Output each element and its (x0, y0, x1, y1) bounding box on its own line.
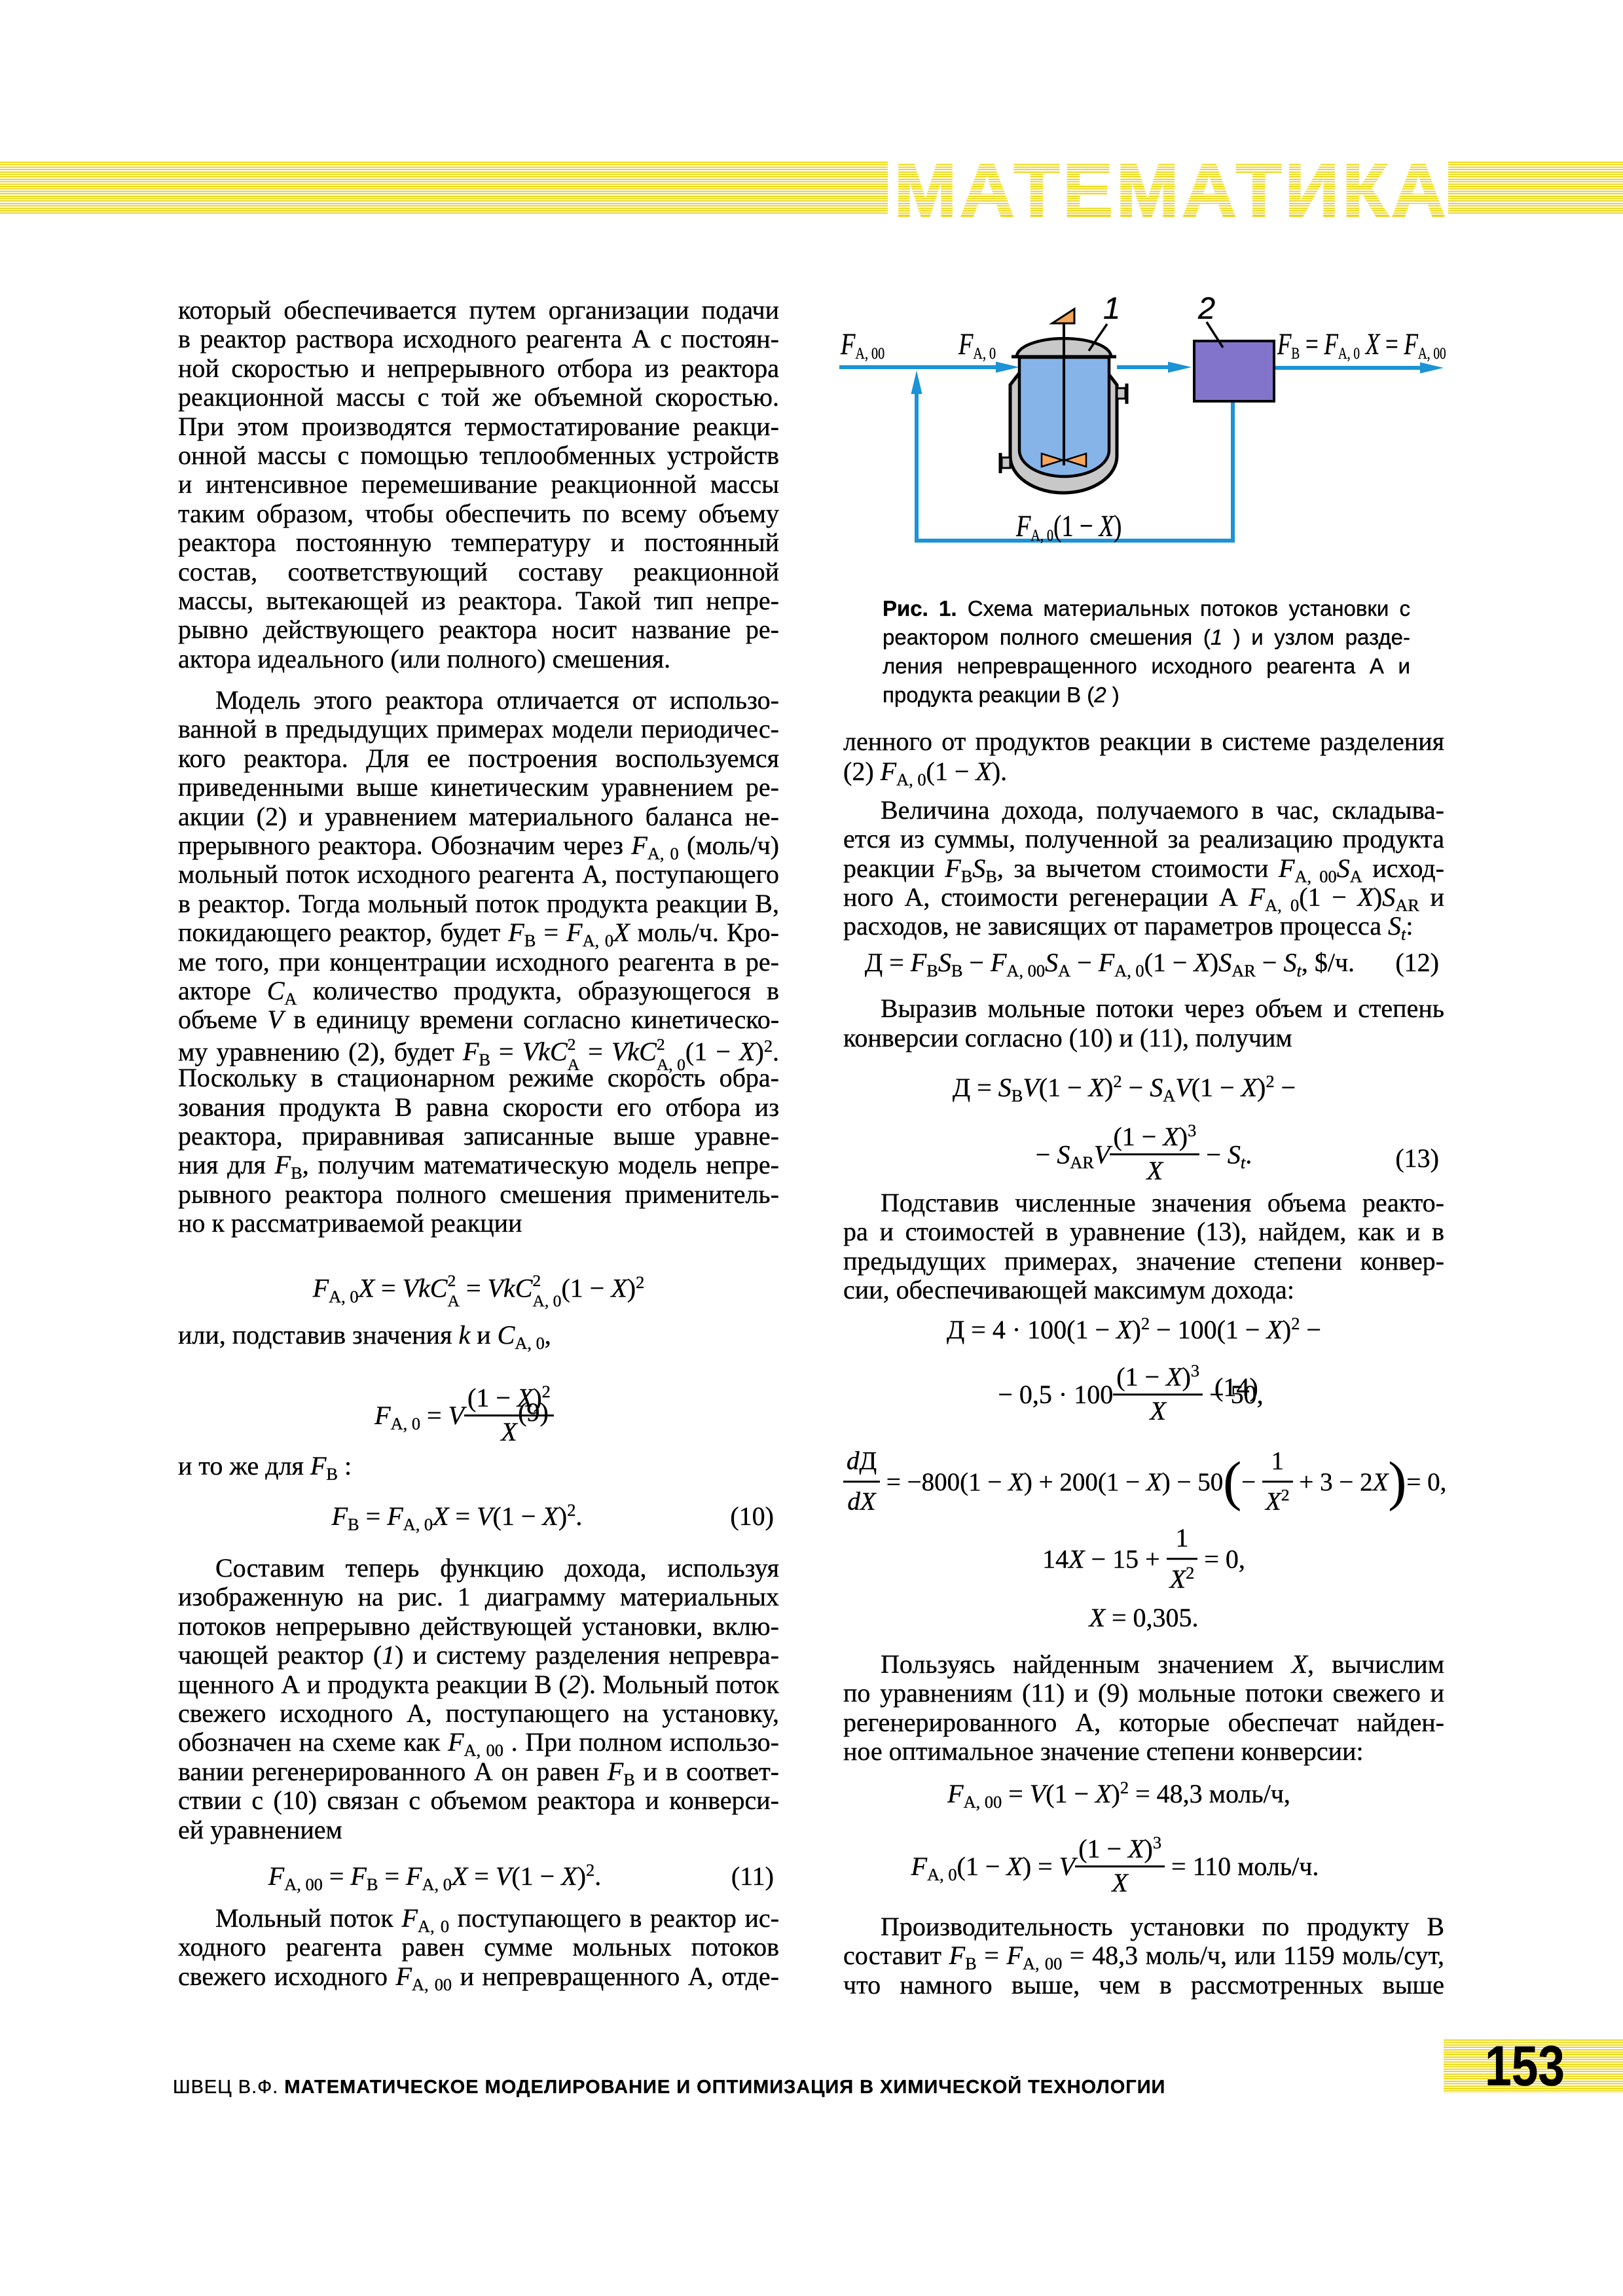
footer running title (173, 2077, 1165, 2098)
header striped band МАТЕМАТИКА (0, 162, 1623, 215)
equation 13 (843, 1073, 1444, 1103)
equation F_A0(1-X) = 110 (843, 1839, 1444, 1900)
equation dД/dX (843, 1448, 1444, 1521)
equation 14 (843, 1315, 1444, 1345)
equation F_A00 = 48,3 (843, 1779, 1444, 1809)
equation 11 (178, 1861, 779, 1892)
reactor side nozzle right (1117, 384, 1127, 404)
wire outlet F_B (1274, 363, 1444, 374)
equation 14X-15 (843, 1524, 1444, 1600)
label F_B = F_A,0 X = F_A,00 (1277, 329, 1446, 360)
agitator shaft (1063, 323, 1065, 465)
equation X=0,305 (843, 1603, 1444, 1633)
wire reactor to separator (1117, 362, 1192, 373)
figure caption (883, 594, 1410, 623)
label F_A,0(1-X) recycle (1016, 511, 1122, 542)
label F_A,00 inlet (841, 329, 884, 360)
equation 9 (178, 1388, 779, 1449)
pointer line 2 (1207, 322, 1223, 348)
label 1 (1103, 293, 1120, 323)
equation 12 (843, 948, 1444, 978)
pointer line 1 (1089, 324, 1107, 351)
wire inlet line F_A,00 (839, 362, 1019, 373)
reactor side nozzle left (1000, 453, 1010, 473)
reactor dome lid (1012, 338, 1116, 357)
footer page number box (1444, 2039, 1623, 2093)
motor flag (1052, 309, 1074, 323)
wire recycle riser and junction arrow (911, 370, 1233, 541)
equation 10 (178, 1501, 779, 1532)
reactor inner tank liquid (1019, 357, 1109, 476)
propeller (1042, 454, 1086, 467)
label F_A,0 (958, 329, 996, 360)
reactor 1 outer jacket (1010, 370, 1117, 493)
separator 2 box (1194, 341, 1274, 401)
equation F_A0 X = VkC_A^2 (178, 1270, 779, 1311)
label 2 (1198, 293, 1215, 323)
